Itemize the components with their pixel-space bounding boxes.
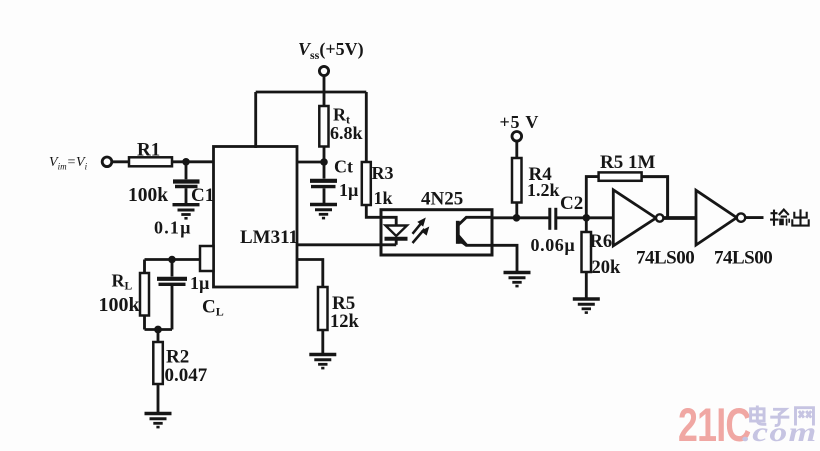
svg-text:0.06µ: 0.06µ [531,235,576,255]
svg-text:74LS00: 74LS00 [714,248,772,269]
resistor R5 1M feedback [586,172,667,218]
resistor R3 [362,162,371,205]
wire input to R1 [112,160,129,163]
svg-text:4N25: 4N25 [421,189,463,210]
svg-text:21IC: 21IC [678,398,750,451]
wire C2 node to inverter1 [586,216,613,219]
wire top rail [256,91,367,94]
svg-text:100k: 100k [99,294,141,316]
wire Rt to Ct node [323,147,326,163]
svg-text:1k: 1k [374,188,393,208]
node R4/C2 junction [513,214,521,222]
wire LM311 output to optocoupler LED [297,243,396,246]
resistor R5 12k [318,287,328,353]
resistor R1 [129,157,172,166]
ground under R6 [573,299,600,313]
watermark 电子网 [751,405,814,425]
wire LM311 pin to Ct node [297,161,324,164]
svg-text:LM311: LM311 [240,227,298,248]
capacitor C2 [550,208,587,230]
wire R1 to LM311 [172,160,214,163]
svg-text:74LS00: 74LS00 [636,248,694,269]
capacitor CL [157,260,187,330]
svg-text:20k: 20k [592,258,622,278]
svg-text:C1: C1 [191,185,214,206]
svg-text:R6: R6 [590,232,613,252]
capacitor C1 [173,162,200,204]
wire emitter to ground [492,245,517,271]
wire output [745,216,763,219]
wire RL/CL bottom to R2 node [145,328,173,331]
resistor Rt [319,106,328,147]
label 输出 (output) [770,209,809,226]
wire balance pin to RL/CL node [145,258,201,261]
phototransistor [458,217,493,245]
svg-text:12k: 12k [330,312,360,332]
svg-text:6.8k: 6.8k [330,123,363,143]
node C2/R6 junction [583,214,591,222]
svg-text:R3: R3 [372,163,394,183]
svg-text:Ct: Ct [334,157,353,177]
svg-text:C2: C2 [560,193,583,214]
ground under C1 [173,205,200,219]
svg-text:+5 V: +5 V [500,112,540,132]
svg-text:100k: 100k [128,185,168,206]
ground under R5 12k [309,355,336,369]
ground under Ct [310,205,337,219]
op-amp U1 LM311 box [214,147,298,288]
ground under 4N25 [504,273,531,287]
svg-text:R1: R1 [137,140,160,161]
resistor R2 [153,330,163,413]
terminal +5V [512,132,522,142]
wire inverter1 output [663,216,696,220]
inverter U3 74LS00 [613,190,663,246]
terminal Vss [319,66,328,75]
wire LM311 pin to R5 12k [297,260,323,288]
svg-text:R5 1M: R5 1M [600,152,655,173]
terminal input [102,157,112,167]
resistor R6 [582,218,592,298]
svg-text:0.1µ: 0.1µ [154,218,192,238]
svg-text:1.2k: 1.2k [527,180,560,200]
svg-text:R5: R5 [332,293,355,314]
node R2 junction [154,326,162,334]
resistor R4 [512,141,522,218]
svg-text:1µ: 1µ [339,180,359,200]
emission arrows [413,219,429,244]
capacitor Ct [310,162,337,203]
svg-text:0.047: 0.047 [165,365,208,386]
ground under R2 [145,414,172,428]
svg-text:1µ: 1µ [190,273,210,293]
svg-text:Vss(+5V): Vss(+5V) [298,39,364,62]
svg-text:Vim=Vi: Vim=Vi [49,155,88,172]
LED inside 4N25 [385,226,408,245]
wire rail left drop to LM311 top [254,92,257,148]
inverter U4 74LS00 [696,190,745,245]
node Ct junction [320,158,328,166]
optocoupler U2 4N25 box [381,210,492,255]
node R1/C1 junction [182,158,190,166]
wire Vss terminal down [323,76,326,107]
node RL/CL junction [168,256,176,264]
resistor RL [140,260,149,330]
wire collector to R4 node [492,216,550,219]
wire rail right drop to R3 [365,92,368,163]
svg-text:.com: .com [742,417,818,447]
wire R3 to LED anode [366,205,396,226]
pin box on LM311 left [200,246,214,271]
